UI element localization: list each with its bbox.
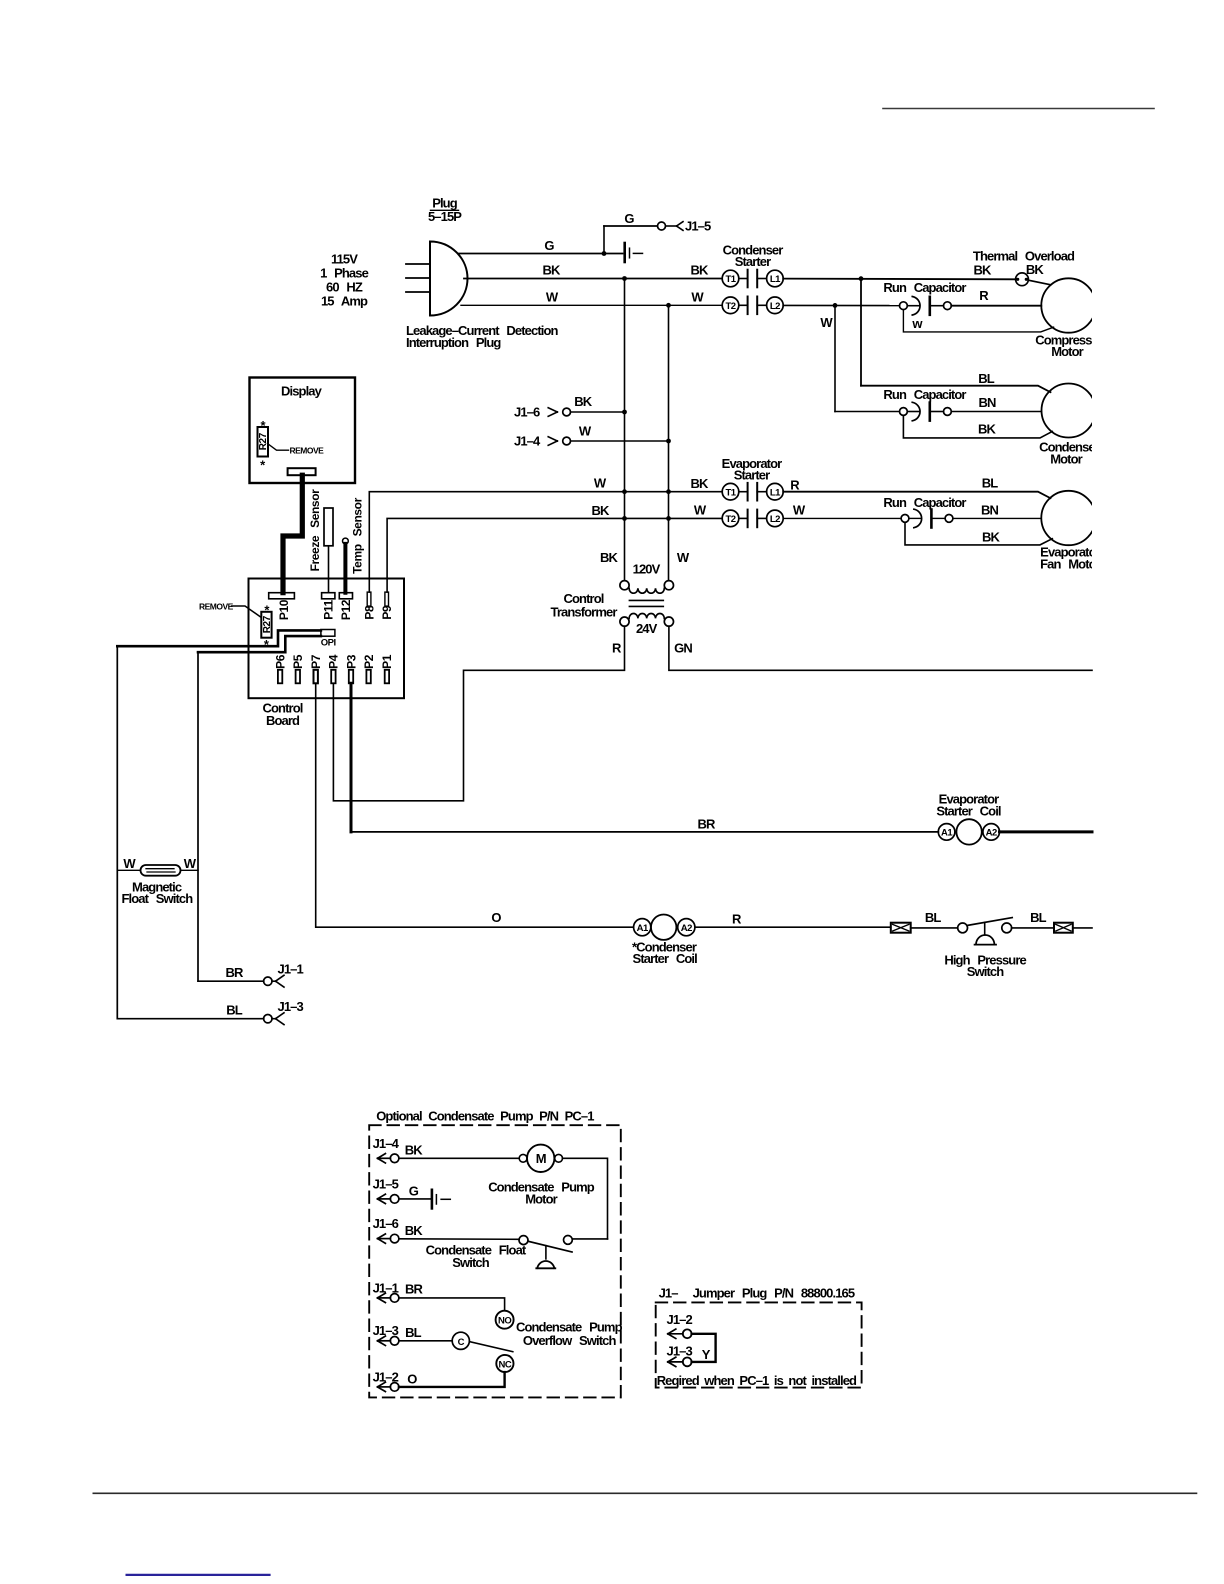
evaporator fan motor M3	[1040, 491, 1101, 572]
svg-text:15 Amp: 15 Amp	[321, 294, 368, 309]
svg-text:G: G	[544, 238, 554, 253]
svg-text:J1–4: J1–4	[514, 434, 541, 449]
contact NO	[496, 1311, 514, 1329]
svg-text:120V: 120V	[633, 562, 661, 577]
node G junction	[602, 251, 607, 256]
svg-text:J1–2: J1–2	[667, 1312, 693, 1327]
leader REMOVE display	[268, 444, 289, 451]
svg-text:*: *	[260, 458, 266, 473]
terminal J1-5	[658, 219, 711, 234]
wire G from plug	[459, 253, 623, 255]
svg-text:BK: BK	[592, 503, 610, 518]
pin P5	[291, 654, 305, 683]
svg-text:R: R	[790, 478, 800, 493]
svg-text:*: *	[261, 418, 267, 433]
terminal J1-6 pump	[373, 1216, 399, 1244]
svg-text:L2: L2	[770, 514, 780, 525]
resistor R27 display	[258, 418, 270, 473]
node BK junction	[622, 276, 627, 281]
wire W from plug	[461, 304, 722, 306]
terminal J1-3 pump	[373, 1323, 399, 1346]
svg-text:*: *	[264, 637, 270, 652]
svg-text:P8: P8	[362, 605, 376, 620]
svg-text:W: W	[184, 856, 197, 871]
node J1-4 junction	[666, 439, 671, 444]
contact L1 evaporator	[757, 483, 783, 501]
svg-text:P5: P5	[291, 654, 305, 669]
svg-text:G: G	[624, 211, 634, 226]
svg-text:P6: P6	[273, 654, 287, 669]
wire J1-4 to motor	[399, 1157, 519, 1159]
svg-text:W: W	[594, 476, 607, 491]
svg-text:Switch: Switch	[452, 1255, 489, 1270]
svg-text:O: O	[491, 910, 501, 925]
svg-text:Switch: Switch	[967, 964, 1004, 979]
svg-text:J1–5: J1–5	[685, 219, 711, 234]
svg-text:Y: Y	[702, 1347, 711, 1362]
evaporator starter coil K1	[938, 819, 999, 844]
compressor motor M1	[1035, 278, 1103, 359]
svg-text:BK: BK	[574, 394, 592, 409]
inline connector F2	[1054, 923, 1073, 933]
inline connector F1	[891, 923, 911, 933]
svg-text:GN: GN	[674, 641, 692, 656]
control board box	[249, 579, 405, 699]
svg-text:W: W	[694, 503, 707, 518]
condensate pump motor label	[488, 1179, 595, 1206]
svg-text:Motor: Motor	[1051, 344, 1083, 359]
svg-text:A2: A2	[986, 828, 997, 839]
svg-text:P4: P4	[327, 654, 341, 669]
connector P9	[380, 592, 394, 620]
wire BN to evaporator fan motor	[953, 517, 1041, 519]
svg-text:G: G	[409, 1183, 419, 1198]
svg-text:Board: Board	[266, 713, 300, 728]
overflow switch label	[516, 1320, 623, 1348]
svg-text:J1–3: J1–3	[278, 999, 304, 1014]
pin P7	[309, 654, 323, 683]
condenser starter label	[723, 243, 784, 270]
wire from A2 to edge	[1000, 830, 1093, 833]
wire fuse2 to edge	[1073, 927, 1092, 929]
terminal J1-1	[264, 962, 304, 988]
pin P4	[327, 654, 341, 683]
svg-text:A2: A2	[681, 923, 692, 934]
svg-text:Display: Display	[281, 384, 323, 399]
thermal overload OL1	[1016, 273, 1029, 286]
overflow switch blade	[470, 1342, 513, 1352]
wire left bus vertical	[116, 646, 118, 1019]
jumper plug dashed box	[656, 1302, 862, 1387]
wire display ribbon thick	[283, 475, 302, 592]
contact L1	[757, 270, 783, 288]
ground symbol pump	[432, 1190, 450, 1209]
connector P11	[321, 593, 335, 620]
svg-text:w: w	[911, 316, 923, 331]
svg-text:J1–6: J1–6	[514, 405, 540, 420]
wire BR to evaporator starter coil	[351, 831, 938, 833]
node J1-6 junction	[622, 410, 627, 415]
wire BL riser	[860, 279, 862, 386]
wire switch to fuse2	[1012, 927, 1054, 929]
svg-text:1 Phase: 1 Phase	[320, 266, 369, 281]
svg-text:60 HZ: 60 HZ	[326, 280, 363, 295]
wire J1-2 to NC	[399, 1372, 505, 1387]
svg-text:Motor: Motor	[525, 1191, 557, 1206]
svg-text:BK: BK	[600, 550, 618, 565]
wire fuse to switch	[911, 927, 958, 929]
wire OPI upper	[117, 630, 321, 646]
svg-text:Starter Coil: Starter Coil	[936, 804, 1001, 819]
svg-text:BK: BK	[978, 422, 996, 437]
wire A2 to fuse	[695, 926, 891, 928]
svg-text:P9: P9	[380, 605, 394, 620]
svg-text:BR: BR	[226, 965, 244, 980]
condenser starter coil label	[632, 940, 697, 967]
wire J1-3 to C	[399, 1340, 452, 1342]
footer rule	[93, 1492, 1196, 1494]
wire W L2 to run capacitor C1	[783, 304, 899, 306]
wire motor to right rail	[563, 1158, 608, 1239]
svg-text:W: W	[820, 315, 833, 330]
svg-text:R: R	[979, 288, 989, 303]
magnetic float switch S1	[141, 865, 181, 876]
plug prong 3	[406, 291, 430, 293]
wire J1-6 BK	[571, 411, 625, 413]
svg-text:REMOVE: REMOVE	[290, 445, 325, 455]
node BK x BK bus	[622, 516, 627, 521]
contact L2 evaporator	[757, 510, 783, 528]
terminal J1-4	[514, 434, 570, 449]
resistor R27 control board	[261, 603, 273, 653]
wire W riser to condenser run capacitor	[834, 305, 836, 411]
wire BN to condenser motor	[951, 411, 1041, 413]
plug P1 leakage-current detection interruption plug body	[430, 242, 468, 316]
svg-text:P1: P1	[380, 654, 394, 669]
control board label	[263, 701, 303, 729]
svg-text:BR: BR	[698, 817, 716, 832]
svg-text:BL: BL	[1030, 910, 1046, 925]
node BL tap	[859, 276, 864, 281]
svg-text:BK: BK	[543, 263, 561, 278]
svg-text:Optional Condensate Pump P/N P: Optional Condensate Pump P/N PC–1	[376, 1109, 594, 1124]
svg-text:115V: 115V	[331, 252, 358, 267]
terminal J1-2 pump	[373, 1369, 399, 1391]
plug label Plug 5-15P	[428, 196, 462, 225]
wire BK vertical bus	[624, 279, 626, 581]
wire P3 BR riser	[350, 683, 353, 832]
svg-text:J1–6: J1–6	[373, 1216, 399, 1231]
svg-text:W: W	[677, 550, 690, 565]
wire G riser to J1-5	[603, 226, 605, 254]
svg-text:R27: R27	[262, 615, 273, 633]
node W junction	[666, 303, 671, 308]
wire W vertical bus	[668, 305, 670, 580]
svg-text:NC: NC	[499, 1359, 512, 1370]
wire overload to compressor motor	[1028, 280, 1050, 285]
wire R to compressor motor	[951, 305, 1041, 307]
transformer core	[629, 600, 663, 606]
svg-text:P2: P2	[362, 654, 376, 669]
wire to J1-1	[198, 980, 264, 982]
wire right bus vertical	[197, 652, 199, 981]
wire BL to condenser motor	[861, 386, 1051, 393]
wire BK horizontal to evaporator starter	[387, 518, 722, 592]
svg-text:P10: P10	[277, 599, 291, 620]
header rule	[883, 108, 1154, 110]
svg-text:Overflow Switch: Overflow Switch	[523, 1333, 617, 1348]
contact L2	[757, 297, 783, 315]
svg-text:A1: A1	[637, 923, 649, 934]
svg-text:P12: P12	[339, 599, 353, 620]
run capacitor C2	[835, 402, 951, 421]
connector OPI	[321, 630, 335, 637]
evaporator starter coil label	[936, 792, 1001, 819]
wire J1-4 W	[571, 440, 669, 442]
plug prong 1	[406, 263, 430, 265]
pin P6	[273, 654, 287, 683]
wire float switch right	[181, 869, 199, 871]
svg-text:Interruption Plug: Interruption Plug	[406, 335, 501, 350]
svg-text:BL: BL	[226, 1003, 242, 1018]
svg-text:J1–5: J1–5	[373, 1176, 399, 1191]
svg-text:W: W	[691, 289, 704, 304]
svg-text:J1–1: J1–1	[278, 962, 304, 977]
plug prong 2	[406, 277, 430, 279]
ground symbol G	[625, 243, 643, 262]
wire R secondary to P4	[333, 626, 624, 801]
display board box	[250, 378, 356, 484]
svg-text:BK: BK	[974, 263, 992, 278]
svg-text:Reqired when PC–1 is not insta: Reqired when PC–1 is not installed	[657, 1373, 857, 1388]
terminal J1-2 jumper	[667, 1312, 693, 1339]
svg-text:BK: BK	[691, 476, 709, 491]
svg-text:P7: P7	[309, 654, 323, 669]
wire W horizontal to evaporator starter	[369, 492, 722, 592]
svg-text:A1: A1	[941, 828, 953, 839]
condenser motor M2	[1039, 384, 1100, 467]
connector P8	[362, 592, 376, 620]
svg-text:Thermal Overload: Thermal Overload	[973, 249, 1075, 264]
wire W L2 to run capacitor	[783, 517, 901, 519]
svg-text:BN: BN	[981, 503, 998, 518]
contact C	[452, 1332, 469, 1349]
svg-text:J1–Jumper Plug P/N 88800.165: J1–Jumper Plug P/N 88800.165	[659, 1286, 855, 1301]
svg-text:R27: R27	[258, 432, 269, 450]
svg-text:W: W	[123, 856, 136, 871]
svg-text:REMOVE: REMOVE	[199, 602, 234, 612]
terminal J1-3	[264, 999, 304, 1025]
svg-text:24V: 24V	[636, 621, 658, 636]
svg-text:BN: BN	[979, 395, 996, 410]
svg-text:Motor: Motor	[1050, 452, 1082, 467]
wire J1-1 to NO	[399, 1298, 505, 1311]
control transformer label	[551, 591, 618, 620]
svg-text:L1: L1	[770, 487, 781, 498]
condensate float switch S3	[519, 1236, 572, 1269]
contact T1	[722, 270, 747, 288]
wire BK branch condenser motor	[903, 415, 1052, 438]
svg-text:W: W	[793, 503, 806, 518]
svg-text:C: C	[458, 1337, 465, 1348]
svg-text:W: W	[546, 289, 559, 304]
svg-text:OPI: OPI	[321, 637, 336, 648]
contact T2 evaporator	[722, 510, 747, 528]
svg-text:O: O	[407, 1371, 417, 1386]
terminal J1-6	[514, 405, 570, 420]
run capacitor C1	[900, 297, 952, 316]
svg-text:Starter Coil: Starter Coil	[633, 951, 698, 966]
wire OPI lower	[198, 636, 321, 652]
footer link line	[127, 1574, 270, 1576]
plug caption	[406, 323, 559, 350]
wire BK from plug	[464, 278, 722, 280]
svg-text:Run Capacitor: Run Capacitor	[883, 495, 966, 510]
contact T1 evaporator	[722, 483, 747, 501]
connector P12	[339, 593, 353, 620]
terminal J1-3 jumper	[667, 1344, 693, 1367]
connector P10	[269, 593, 295, 620]
pin P2	[362, 654, 376, 683]
svg-text:W: W	[579, 423, 592, 438]
transformer T1 secondary	[620, 614, 674, 627]
svg-text:J1–4: J1–4	[373, 1136, 400, 1151]
svg-text:T1: T1	[725, 274, 736, 285]
svg-text:5–15P: 5–15P	[428, 209, 462, 224]
svg-text:T2: T2	[725, 514, 735, 525]
node BK x W bus	[666, 516, 671, 521]
terminal J1-5 pump	[373, 1176, 399, 1203]
svg-text:Starter: Starter	[735, 254, 771, 269]
svg-text:J1–3: J1–3	[667, 1344, 693, 1359]
high pressure switch S2	[958, 918, 1013, 945]
svg-text:*: *	[264, 603, 270, 618]
temp sensor TS	[343, 497, 365, 592]
svg-text:L1: L1	[770, 274, 781, 285]
wire to J1-3	[117, 1018, 263, 1020]
svg-text:Transformer: Transformer	[551, 604, 618, 619]
svg-text:L2: L2	[770, 301, 780, 312]
svg-text:BK: BK	[982, 530, 1000, 545]
terminal J1-1 pump	[373, 1280, 399, 1302]
terminal J1-4 pump	[373, 1136, 400, 1163]
node W x W bus	[666, 489, 671, 494]
wire float switch to right rail	[572, 1238, 607, 1240]
svg-text:BL: BL	[978, 371, 994, 386]
svg-text:BK: BK	[405, 1143, 423, 1158]
leader REMOVE control board	[232, 606, 261, 617]
run capacitor C3	[901, 509, 953, 528]
svg-text:BK: BK	[405, 1223, 423, 1238]
supply rating label 115V 1 Phase 60 HZ 15 Amp	[320, 252, 369, 309]
svg-text:BL: BL	[405, 1325, 421, 1340]
wire R BL to evaporator fan motor	[783, 492, 1050, 499]
evaporator starter label	[722, 456, 782, 483]
svg-text:BL: BL	[925, 910, 941, 925]
wire GN secondary to right	[669, 626, 1092, 670]
transformer T1 primary	[620, 581, 674, 594]
svg-text:Temp Sensor: Temp Sensor	[350, 497, 364, 573]
wire BK L1 to thermal overload	[783, 278, 1016, 281]
high pressure switch label	[944, 953, 1026, 980]
display connector bar	[288, 468, 316, 475]
svg-text:BK: BK	[1026, 262, 1044, 277]
wire float switch left	[117, 869, 140, 871]
magnetic float switch label	[122, 880, 194, 906]
svg-text:NO: NO	[498, 1316, 511, 1327]
svg-text:T2: T2	[725, 301, 735, 312]
node W tap	[833, 303, 838, 308]
svg-text:BL: BL	[982, 476, 998, 491]
svg-text:Freeze Sensor: Freeze Sensor	[308, 489, 322, 572]
pin P1	[380, 654, 394, 683]
freeze sensor FS	[308, 489, 333, 593]
svg-text:M: M	[536, 1151, 546, 1166]
svg-text:Fan Motor: Fan Motor	[1040, 557, 1101, 572]
condensate pump dashed box	[369, 1125, 621, 1397]
wire w branch compressor	[903, 310, 1053, 332]
contact T2	[722, 297, 747, 315]
svg-text:Run Capacitor: Run Capacitor	[883, 387, 966, 402]
svg-text:R: R	[732, 912, 742, 927]
wire P7 to condenser starter coil	[316, 683, 634, 927]
condensate float switch label	[426, 1243, 527, 1271]
svg-text:BK: BK	[691, 263, 709, 278]
wire J1-5 to ground	[399, 1198, 431, 1200]
node W x BK bus	[622, 489, 627, 494]
wire jumper Y	[692, 1334, 716, 1362]
condensate pump motor M4	[519, 1145, 562, 1172]
svg-text:Starter: Starter	[734, 468, 770, 483]
svg-text:Run Capacitor: Run Capacitor	[883, 280, 966, 295]
pin P3	[344, 654, 358, 683]
wire BK branch evaporator fan motor	[905, 522, 1052, 545]
svg-text:T1: T1	[725, 487, 736, 498]
wire to terminal J1-5	[604, 225, 658, 227]
condenser starter coil K2	[634, 915, 695, 940]
wire J1-6 to float switch	[399, 1238, 519, 1241]
svg-text:BR: BR	[405, 1282, 423, 1297]
contact NC	[496, 1355, 513, 1372]
svg-text:R: R	[612, 641, 622, 656]
svg-text:P11: P11	[321, 600, 335, 620]
svg-text:Float Switch: Float Switch	[122, 891, 194, 906]
svg-text:P3: P3	[344, 654, 358, 669]
